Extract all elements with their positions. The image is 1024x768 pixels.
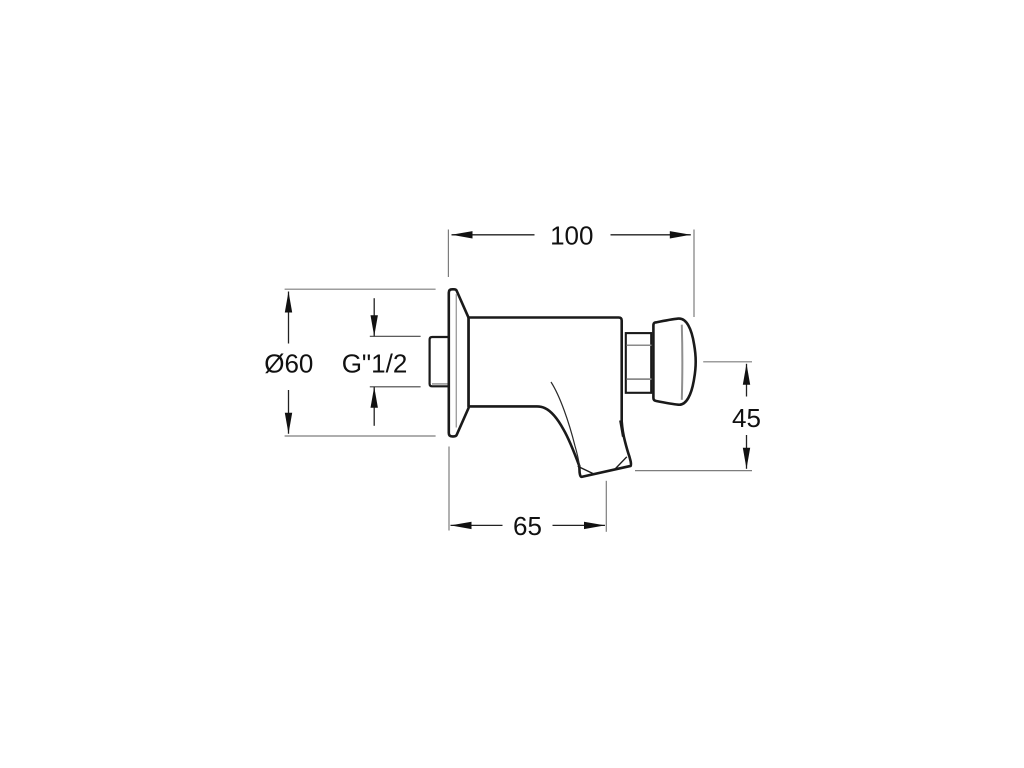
svg-text:45: 45 <box>732 403 761 433</box>
spout-body crease <box>620 421 623 437</box>
button stem <box>626 333 652 393</box>
dimension 100 (top) <box>448 220 694 317</box>
outlet chamfer left <box>578 466 595 474</box>
dimension 65 (bottom) <box>449 447 606 542</box>
dimension G1/2 (thread) <box>342 298 421 426</box>
push button <box>653 319 695 405</box>
button face line <box>681 325 684 400</box>
thread nipple G1/2 <box>430 337 449 386</box>
spout inner contour <box>551 382 580 469</box>
svg-text:Ø60: Ø60 <box>264 349 313 379</box>
svg-text:100: 100 <box>550 220 593 250</box>
svg-text:65: 65 <box>513 511 542 541</box>
wall flange <box>449 289 469 436</box>
svg-text:G"1/2: G"1/2 <box>342 349 408 379</box>
dimension O60 (left) <box>261 289 436 436</box>
tap body and spout <box>469 318 631 477</box>
outlet chamfer right <box>615 457 627 470</box>
dimension 45 (right) <box>635 362 766 471</box>
